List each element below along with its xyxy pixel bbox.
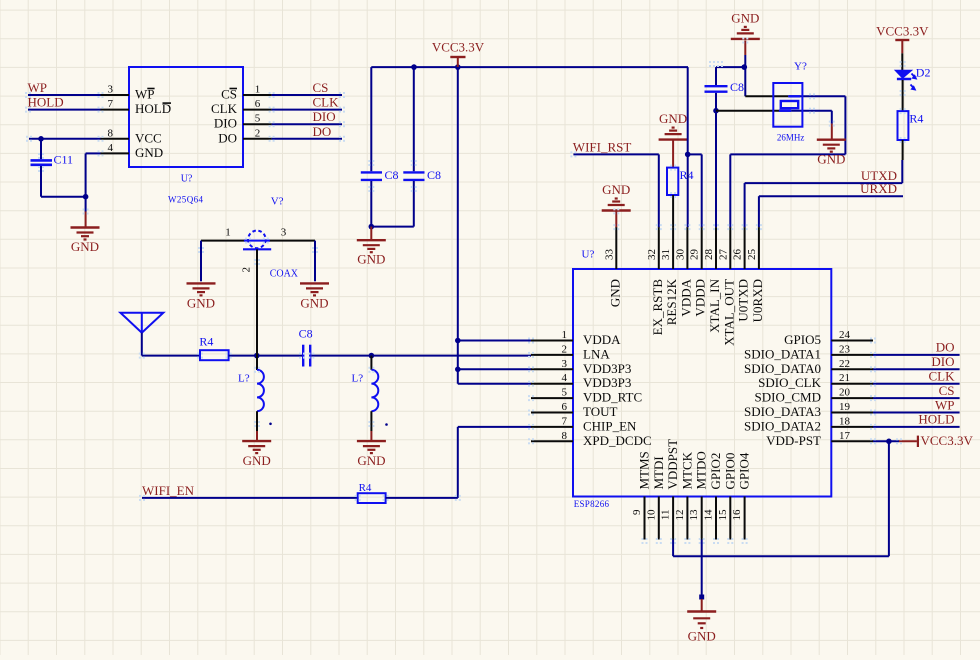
svg-text:30: 30 [674,249,686,261]
svg-text:32: 32 [646,249,658,260]
svg-text:GND: GND [357,252,385,267]
svg-text:8: 8 [562,430,568,442]
svg-text:4: 4 [108,142,114,154]
svg-text:23: 23 [839,343,851,355]
svg-text:LNA: LNA [583,346,610,361]
svg-text:17: 17 [839,430,851,442]
svg-text:VCC3.3V: VCC3.3V [432,39,485,54]
svg-text:VDD-PST: VDD-PST [766,433,821,448]
svg-text:3: 3 [108,84,114,96]
svg-text:GND: GND [357,453,385,468]
svg-text:SDIO_DATA0: SDIO_DATA0 [744,361,821,376]
svg-text:RES12K: RES12K [664,278,679,325]
svg-text:GND: GND [688,629,716,644]
svg-text:MTDO: MTDO [694,451,709,489]
svg-text:R4: R4 [909,112,923,126]
svg-text:R4: R4 [199,334,213,348]
svg-text:14: 14 [703,509,715,521]
svg-text:VCC3.3V: VCC3.3V [876,24,929,39]
svg-text:10: 10 [645,509,657,521]
svg-text:XPD_DCDC: XPD_DCDC [583,433,652,448]
svg-text:WIFI_EN: WIFI_EN [142,483,195,498]
svg-text:CHIP_EN: CHIP_EN [583,418,637,433]
svg-text:SDIO_DATA2: SDIO_DATA2 [744,418,821,433]
svg-text:8: 8 [108,127,114,139]
svg-text:DO: DO [313,124,332,139]
svg-text:3: 3 [281,227,287,239]
svg-text:SDIO_DATA3: SDIO_DATA3 [744,404,821,419]
svg-text:2: 2 [241,267,253,273]
svg-text:GND: GND [300,295,328,310]
svg-text:VDD3P3: VDD3P3 [583,361,631,376]
svg-text:31: 31 [660,249,672,260]
svg-text:5: 5 [562,387,568,399]
svg-text:13: 13 [688,509,700,521]
svg-text:18: 18 [839,415,851,427]
svg-text:GND: GND [187,295,215,310]
svg-text:WIFI_RST: WIFI_RST [573,139,632,154]
svg-text:EX_RSTB: EX_RSTB [650,279,665,336]
svg-text:GPIO4: GPIO4 [737,452,752,489]
svg-text:WP: WP [935,397,955,412]
svg-text:U0TXD: U0TXD [736,279,751,322]
svg-text:GPIO2: GPIO2 [708,453,723,490]
svg-text:5: 5 [255,113,261,125]
svg-text:CS: CS [313,80,329,95]
svg-text:U?: U? [582,249,595,261]
svg-text:3: 3 [562,358,568,370]
svg-text:22: 22 [839,358,850,370]
svg-text:W25Q64: W25Q64 [168,195,203,205]
svg-text:GPIO0: GPIO0 [722,453,737,490]
svg-text:1: 1 [562,329,568,341]
svg-text:GND: GND [243,453,271,468]
svg-text:GND: GND [731,10,759,25]
svg-text:2: 2 [255,127,261,139]
svg-text:GPIO5: GPIO5 [784,332,821,347]
svg-text:VDDA: VDDA [583,332,621,347]
svg-text:CLK: CLK [211,101,238,116]
svg-text:25: 25 [746,249,758,261]
svg-text:28: 28 [703,249,715,261]
svg-text:GND: GND [607,279,622,307]
svg-text:4: 4 [562,372,568,384]
svg-text:VDDD: VDDD [693,279,708,317]
svg-text:DO: DO [936,340,955,355]
svg-text:15: 15 [717,509,729,521]
svg-text:C11: C11 [54,153,74,167]
svg-text:GND: GND [817,152,845,167]
svg-text:CLK: CLK [313,95,340,110]
svg-text:DO: DO [218,130,237,145]
svg-text:11: 11 [660,510,672,521]
svg-text:URXD: URXD [860,181,897,196]
svg-text:VDD_RTC: VDD_RTC [583,390,642,405]
svg-text:DIO: DIO [214,116,237,131]
svg-text:26: 26 [732,249,744,261]
svg-text:GND: GND [602,182,630,197]
svg-text:33: 33 [603,249,615,261]
svg-text:L?: L? [238,373,250,385]
svg-text:SDIO_DATA1: SDIO_DATA1 [744,346,821,361]
svg-text:L?: L? [352,373,364,385]
svg-text:V?: V? [271,196,284,208]
svg-text:20: 20 [839,387,851,399]
svg-text:29: 29 [689,249,701,261]
svg-text:MTCK: MTCK [679,451,694,489]
svg-text:SDIO_CLK: SDIO_CLK [758,375,821,390]
svg-text:XTAL_IN: XTAL_IN [707,278,722,332]
svg-text:19: 19 [839,401,851,413]
svg-text:2: 2 [562,343,568,355]
svg-text:R4: R4 [359,482,372,494]
svg-text:27: 27 [717,249,729,261]
svg-text:24: 24 [839,329,851,341]
svg-text:Y?: Y? [794,61,807,73]
svg-text:6: 6 [562,401,568,413]
svg-text:C8: C8 [730,80,744,94]
svg-text:U0RXD: U0RXD [750,279,765,322]
svg-text:VDDA: VDDA [678,278,693,316]
svg-text:XTAL_OUT: XTAL_OUT [721,279,736,346]
svg-text:D2: D2 [916,66,931,80]
svg-text:DIO: DIO [313,109,336,124]
svg-text:GND: GND [659,111,687,126]
svg-text:VDD3P3: VDD3P3 [583,375,631,390]
svg-text:MTDI: MTDI [651,456,666,489]
svg-text:CS: CS [939,383,955,398]
svg-text:COAX: COAX [270,269,299,280]
svg-text:21: 21 [839,372,850,384]
svg-text:ESP8266: ESP8266 [574,499,610,509]
svg-text:C8: C8 [299,327,313,341]
svg-text:R4: R4 [680,168,694,182]
svg-text:6: 6 [255,98,261,110]
svg-text:7: 7 [562,415,568,427]
svg-text:HOLD: HOLD [28,95,64,110]
svg-text:DIO: DIO [931,354,954,369]
svg-text:16: 16 [731,509,743,521]
svg-text:1: 1 [225,227,231,239]
svg-text:VDDPST: VDDPST [665,439,680,490]
svg-text:GND: GND [71,239,99,254]
svg-text:9: 9 [631,509,643,515]
svg-text:CLK: CLK [929,369,956,384]
svg-text:MTMS: MTMS [637,451,652,489]
svg-text:1: 1 [255,84,261,96]
svg-text:GND: GND [135,145,163,160]
svg-text:12: 12 [674,510,686,521]
svg-text:VCC3.3V: VCC3.3V [921,433,974,448]
svg-text:7: 7 [108,98,114,110]
svg-text:U?: U? [181,174,193,185]
svg-text:VCC: VCC [135,130,162,145]
svg-text:C8: C8 [427,168,441,182]
svg-text:HOLD: HOLD [918,412,954,427]
svg-text:C8: C8 [385,168,399,182]
svg-text:26MHz: 26MHz [777,133,805,143]
svg-text:TOUT: TOUT [583,404,617,419]
svg-text:SDIO_CMD: SDIO_CMD [755,390,821,405]
